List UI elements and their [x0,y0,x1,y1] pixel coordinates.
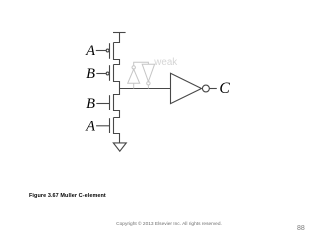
svg-text:A: A [85,43,95,59]
svg-text:weak: weak [153,57,177,68]
svg-text:B: B [86,66,95,82]
svg-text:B: B [86,96,95,112]
svg-text:C: C [219,80,230,97]
svg-text:A: A [85,119,95,135]
